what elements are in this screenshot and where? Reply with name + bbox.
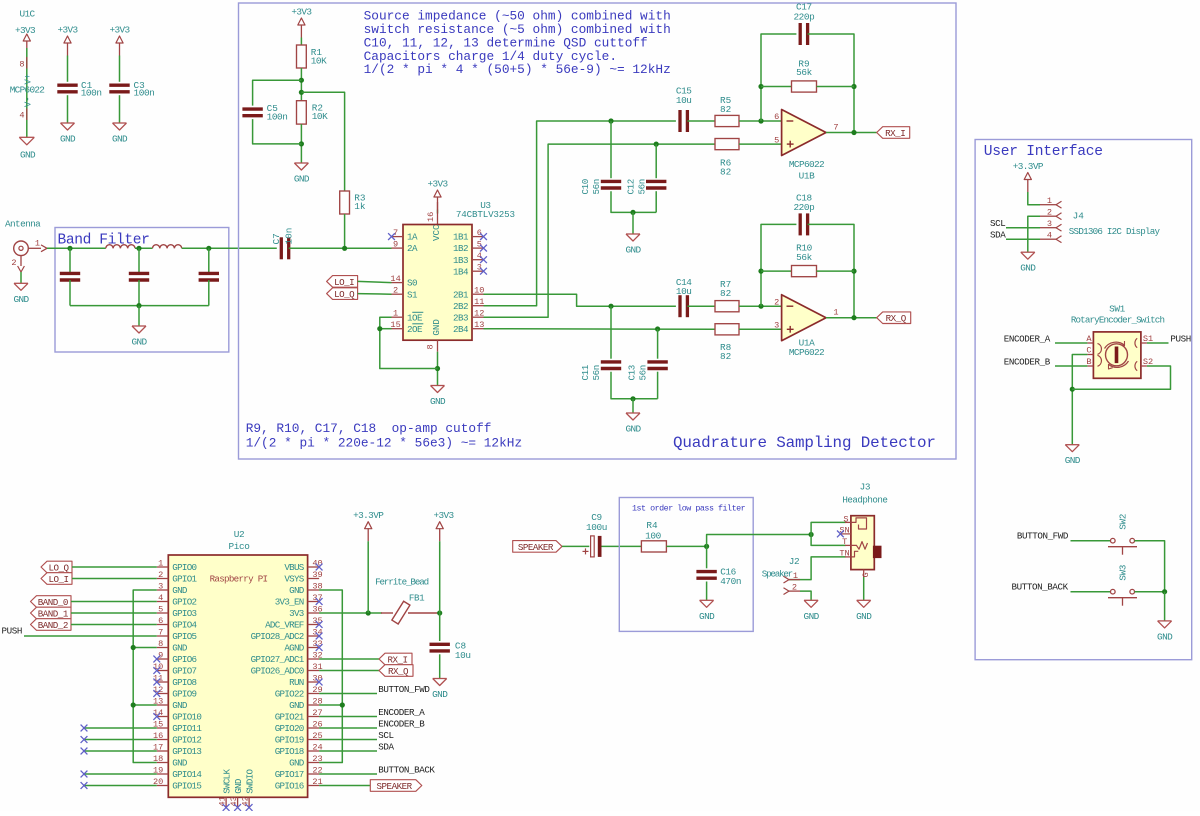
- svg-text:GPIO0: GPIO0: [172, 562, 196, 573]
- junction: [206, 246, 211, 251]
- svg-text:GND: GND: [172, 643, 188, 654]
- junction: [67, 246, 72, 251]
- antenna connector J1: [5, 218, 47, 272]
- J4 pin 3: [1040, 219, 1062, 231]
- wire: [439, 613, 441, 641]
- wire: [119, 95, 121, 123]
- svg-text:AGND: AGND: [284, 643, 304, 654]
- svg-text:S0: S0: [407, 278, 417, 289]
- svg-text:BAND_1: BAND_1: [38, 608, 69, 619]
- svg-text:GPIO18: GPIO18: [275, 746, 304, 757]
- ground (C1): [60, 123, 76, 145]
- U3 pin 11 2B2: [453, 297, 485, 312]
- svg-text:10u: 10u: [676, 95, 692, 106]
- U2 pin 23 GND: [289, 754, 323, 769]
- svg-text:2: 2: [158, 570, 163, 580]
- label PUSH (U2): [2, 626, 22, 637]
- svg-text:1B2: 1B2: [453, 243, 468, 254]
- svg-text:GPIO26_ADC0: GPIO26_ADC0: [251, 666, 304, 677]
- svg-text:LO_Q: LO_Q: [48, 562, 69, 573]
- svg-text:GPIO1: GPIO1: [172, 574, 197, 585]
- power +3.3VP (J4): [1013, 161, 1044, 192]
- U2 pin 37 3V3_EN: [275, 593, 323, 608]
- svg-text:5: 5: [158, 604, 163, 614]
- wire: [319, 693, 377, 695]
- wire: [367, 541, 369, 613]
- wire: [24, 635, 157, 637]
- svg-text:12: 12: [153, 685, 163, 695]
- wire: [71, 612, 157, 614]
- svg-text:V+: V+: [24, 74, 34, 85]
- svg-text:8: 8: [426, 344, 436, 349]
- svg-text:1: 1: [35, 239, 40, 249]
- svg-text:GPIO16: GPIO16: [275, 781, 304, 792]
- svg-text:100u: 100u: [586, 522, 607, 533]
- no-connect X U3 pin 7: [388, 233, 395, 240]
- svg-text:13: 13: [474, 320, 484, 330]
- resistor R1 10K: [297, 45, 307, 68]
- svg-text:ENCODER_A: ENCODER_A: [1004, 333, 1051, 344]
- svg-text:GND: GND: [856, 611, 872, 622]
- filter capacitor (right): [199, 273, 219, 280]
- svg-text:SPEAKER: SPEAKER: [377, 781, 413, 792]
- U3 pin 10 2B1: [453, 285, 485, 300]
- svg-text:U2: U2: [234, 529, 244, 540]
- capacitor C15 10u: [680, 110, 687, 132]
- svg-text:6: 6: [774, 112, 779, 122]
- svg-text:RotaryEncoder_Switch: RotaryEncoder_Switch: [1071, 315, 1165, 326]
- wire: [319, 670, 379, 672]
- wire: [602, 545, 642, 547]
- wire: [84, 773, 157, 775]
- svg-text:4: 4: [1047, 231, 1052, 241]
- note text bottom: [246, 421, 522, 450]
- svg-text:1/(2 * pi * 4 * (50+5) * 56e-9: 1/(2 * pi * 4 * (50+5) * 56e-9) ~= 12kHz: [364, 62, 671, 77]
- wire: [319, 750, 377, 752]
- global label RX_I (U2): [379, 653, 412, 665]
- svg-text:GND: GND: [699, 611, 715, 622]
- svg-text:10K: 10K: [312, 111, 328, 122]
- U2 pin 3 GND: [157, 581, 188, 596]
- no-connect X U2 pin 20 wire end: [81, 782, 88, 789]
- junction: [630, 210, 635, 215]
- svg-text:ENCODER_B: ENCODER_B: [378, 718, 425, 729]
- wire: [69, 248, 71, 273]
- svg-text:7: 7: [158, 627, 163, 637]
- U2 pin 4 GPIO2: [157, 593, 197, 608]
- wire: [300, 124, 302, 163]
- wire: [358, 293, 392, 296]
- label R3: [354, 192, 366, 212]
- svg-text:+3V3: +3V3: [427, 179, 448, 190]
- svg-text:3V3: 3V3: [289, 608, 304, 619]
- svg-text:56k: 56k: [796, 67, 812, 78]
- wire: [632, 212, 634, 234]
- svg-text:1B1: 1B1: [453, 232, 469, 243]
- ground (J4): [1020, 252, 1036, 274]
- U2 pin 9 GPIO6: [157, 650, 197, 665]
- svg-text:GPIO15: GPIO15: [172, 781, 201, 792]
- svg-text:Headphone: Headphone: [842, 495, 887, 506]
- label C12: [626, 179, 648, 194]
- svg-text:3: 3: [477, 262, 482, 272]
- svg-text:MCP6022: MCP6022: [789, 159, 824, 170]
- svg-text:R9, R10, C17, C18 op-amp cuto: R9, R10, C17, C18 op-amp cutoff: [246, 421, 492, 436]
- label C7: [271, 228, 295, 245]
- svg-text:GPIO13: GPIO13: [172, 746, 201, 757]
- wire: [138, 248, 140, 273]
- svg-text:GND: GND: [1020, 263, 1036, 274]
- wire: [119, 56, 121, 82]
- svg-text:2B2: 2B2: [453, 301, 468, 312]
- svg-text:MCP6022: MCP6022: [789, 347, 824, 358]
- svg-text:T: T: [842, 537, 847, 547]
- power +3V3 (FB1): [433, 510, 454, 541]
- headphone jack J3 body: [842, 482, 887, 570]
- capacitor C12 56n: [646, 181, 666, 188]
- svg-text:User Interface: User Interface: [984, 144, 1103, 160]
- svg-text:GPIO19: GPIO19: [275, 735, 304, 746]
- wire: [380, 328, 392, 330]
- SW1 pin A: [1086, 334, 1093, 344]
- inductor L2: [153, 245, 182, 249]
- U2 pin 43 GND: [229, 778, 244, 806]
- svg-text:15: 15: [390, 320, 400, 330]
- svg-text:82: 82: [720, 104, 731, 115]
- wire: [1006, 238, 1040, 240]
- wire: [439, 541, 441, 613]
- svg-text:C7: C7: [271, 233, 282, 244]
- svg-text:GPIO27_ADC1: GPIO27_ADC1: [251, 654, 305, 665]
- svg-text:GND: GND: [625, 245, 641, 256]
- svg-text:82: 82: [720, 351, 731, 362]
- svg-text:34: 34: [312, 627, 322, 637]
- ground (J2): [804, 600, 820, 622]
- svg-text:R4: R4: [646, 520, 658, 531]
- U2 pin 34 GPIO28_ADC2: [251, 627, 323, 642]
- wire: [437, 352, 439, 386]
- junction: [366, 610, 371, 615]
- svg-text:100n: 100n: [81, 88, 102, 99]
- svg-text:100n: 100n: [134, 88, 155, 99]
- U2 pin 35 ADC_VREF: [265, 616, 323, 631]
- wire: [484, 144, 716, 317]
- svg-text:BUTTON_FWD: BUTTON_FWD: [378, 684, 430, 695]
- svg-text:14: 14: [390, 274, 400, 284]
- J3 pin G: [861, 570, 871, 578]
- wire: [706, 546, 708, 568]
- U3 pin 6 1B1: [453, 228, 484, 243]
- U3 pin 14 S0: [390, 274, 417, 289]
- capacitor C11 56n: [601, 362, 621, 369]
- U2 pin 24 GPIO18: [275, 742, 323, 757]
- junction: [131, 645, 136, 650]
- wire: [1028, 216, 1040, 252]
- U2 pin 2 GPIO1: [157, 570, 198, 585]
- junction: [136, 303, 141, 308]
- svg-text:Raspberry PI: Raspberry PI: [210, 574, 268, 585]
- wire: [133, 704, 157, 706]
- wire: [739, 305, 782, 307]
- svg-text:5: 5: [774, 135, 779, 145]
- junction: [851, 84, 856, 89]
- U2 pin 26 GPIO20: [275, 719, 323, 734]
- inductor L1: [106, 245, 135, 249]
- wire: [657, 329, 659, 359]
- filter capacitor (middle): [129, 273, 149, 280]
- U2 pin 27 GPIO21: [275, 708, 323, 723]
- U2 pin 15 GPIO11: [153, 719, 202, 734]
- svg-text:SCL: SCL: [990, 218, 1005, 229]
- wire: [484, 294, 676, 306]
- U3 pin 7 1A: [392, 228, 419, 243]
- global label RX_Q (U2): [379, 665, 413, 677]
- U2 pin 40 VBUS: [284, 558, 322, 573]
- wire: [1135, 541, 1165, 592]
- power +3V3 (U3 VCC): [427, 179, 448, 210]
- svg-text:2A: 2A: [407, 243, 418, 254]
- wire: [632, 399, 634, 413]
- junction: [136, 246, 141, 251]
- J3 internals: [845, 518, 868, 557]
- U2 pin 18 GND: [153, 754, 188, 769]
- ground (U3): [430, 386, 446, 408]
- no-connect X U2 pin 14: [153, 713, 160, 720]
- svg-text:C12: C12: [626, 179, 637, 194]
- svg-text:6: 6: [477, 228, 482, 238]
- svg-text:SSD1306 I2C Display: SSD1306 I2C Display: [1069, 226, 1161, 237]
- no-connect X U2 pin 40: [316, 564, 323, 571]
- junction: [758, 84, 763, 89]
- svg-text:GPIO20: GPIO20: [275, 723, 304, 734]
- wire: [655, 191, 657, 212]
- wire: [71, 624, 157, 626]
- wire: [484, 121, 676, 306]
- svg-text:1: 1: [833, 308, 838, 318]
- capacitor C1 100n: [57, 85, 77, 92]
- svg-text:+3V3: +3V3: [433, 510, 454, 521]
- svg-text:TN: TN: [839, 549, 849, 559]
- junction: [131, 702, 136, 707]
- wire: [84, 785, 157, 787]
- wire: [817, 86, 855, 88]
- wire: [380, 317, 438, 368]
- global label LO_Q: [327, 288, 358, 300]
- U2 pin 29 GPIO22: [275, 685, 323, 700]
- svg-text:LO_I: LO_I: [334, 277, 354, 288]
- J3 pin S: [843, 515, 848, 525]
- ground (SW2 SW3): [1157, 621, 1173, 643]
- global label BAND_0: [31, 596, 72, 608]
- svg-text:11: 11: [153, 673, 163, 683]
- J2 pin 2: [784, 582, 801, 594]
- wire: [319, 658, 379, 660]
- wire: [739, 328, 782, 330]
- U2 pin 25 GPIO19: [275, 731, 323, 746]
- junction: [809, 532, 814, 537]
- svg-text:100n: 100n: [267, 111, 288, 122]
- wire: [208, 280, 210, 306]
- svg-text:10K: 10K: [311, 55, 327, 66]
- U2 pin 10 GPIO7: [153, 662, 197, 677]
- U2 pin 38 GND: [289, 581, 323, 596]
- wire: [611, 191, 656, 212]
- junction: [340, 702, 345, 707]
- svg-text:GPIO5: GPIO5: [172, 631, 196, 642]
- wire: [611, 372, 658, 399]
- op-amp U1B MCP6022: [774, 110, 838, 182]
- svg-text:GND: GND: [233, 778, 244, 794]
- label R5: [720, 95, 732, 115]
- svg-text:1OE: 1OE: [407, 312, 423, 323]
- label SDA (J4): [990, 230, 1006, 241]
- label R6: [720, 158, 732, 178]
- SW1 pin B: [1086, 357, 1093, 367]
- svg-text:220p: 220p: [793, 12, 814, 23]
- wire: [437, 210, 439, 214]
- svg-text:BUTTON_FWD: BUTTON_FWD: [1017, 530, 1069, 541]
- label C1: [81, 80, 102, 99]
- svg-text:RX_I: RX_I: [885, 128, 905, 139]
- label C8: [455, 640, 471, 661]
- no-connect X U2 pin 34: [316, 633, 323, 640]
- svg-text:GND: GND: [60, 134, 76, 145]
- capacitor C9 100u polarized: [583, 512, 607, 557]
- label BUTTON_BACK (SW3): [1012, 581, 1069, 592]
- rotary encoder SW1 internals: [1098, 338, 1138, 370]
- no-connect X J3 SN: [837, 531, 844, 538]
- wire: [133, 590, 157, 763]
- J3 pin TN: [839, 549, 849, 559]
- wire: [761, 86, 792, 88]
- J2 pin 1: [784, 571, 801, 583]
- svg-text:GPIO6: GPIO6: [172, 654, 196, 665]
- junction: [1162, 589, 1167, 594]
- svg-text:10: 10: [153, 662, 163, 672]
- U3 pin 9 2A: [392, 239, 419, 254]
- svg-text:GND: GND: [432, 689, 448, 700]
- U3 pin 2 S1: [392, 285, 419, 300]
- J3 pin SN: [839, 525, 851, 535]
- svg-text:1: 1: [1047, 196, 1052, 206]
- junction: [299, 78, 304, 83]
- no-connect X U2 pin 10: [153, 667, 160, 674]
- U2 pin 22 GPIO17: [275, 765, 323, 780]
- no-connect X U2 pin 35: [316, 621, 323, 628]
- svg-text:82: 82: [720, 288, 731, 299]
- svg-text:GND: GND: [289, 585, 305, 596]
- svg-text:+3.3VP: +3.3VP: [353, 510, 384, 521]
- svg-text:1st order low pass filter: 1st order low pass filter: [632, 504, 746, 514]
- wire: [138, 280, 140, 306]
- svg-text:LO_Q: LO_Q: [334, 289, 355, 300]
- svg-text:GPIO3: GPIO3: [172, 608, 196, 619]
- label ENCODER_A (U2): [378, 707, 425, 718]
- SW1 pin C: [1086, 346, 1093, 356]
- label C3: [134, 80, 155, 99]
- wire: [761, 270, 792, 272]
- wire: [826, 132, 877, 134]
- label SCL (U2): [378, 730, 393, 741]
- capacitor C18 220p: [800, 213, 807, 235]
- wire: [67, 56, 69, 82]
- ground (band filter): [131, 326, 147, 348]
- svg-text:BAND_2: BAND_2: [38, 620, 68, 631]
- svg-text:2: 2: [792, 582, 797, 592]
- svg-text:GND: GND: [294, 174, 310, 185]
- label BUTTON_FWD (U2): [378, 684, 430, 695]
- svg-text:+3V3: +3V3: [57, 25, 78, 36]
- svg-text:39: 39: [312, 570, 322, 580]
- svg-text:Pico: Pico: [229, 541, 251, 552]
- svg-text:56k: 56k: [796, 252, 812, 263]
- wire: [826, 317, 877, 319]
- speaker connector J2: [762, 556, 799, 580]
- svg-text:ENCODER_B: ENCODER_B: [1004, 356, 1051, 367]
- svg-text:4: 4: [158, 593, 163, 603]
- ground (C11 C13): [625, 413, 641, 435]
- svg-text:2B1: 2B1: [453, 289, 469, 300]
- ground (C10 C12): [625, 234, 641, 256]
- svg-text:10u: 10u: [455, 650, 471, 661]
- svg-text:SW3: SW3: [1118, 564, 1129, 580]
- global label BAND_1: [31, 607, 72, 619]
- svg-text:SCL: SCL: [378, 730, 393, 741]
- svg-text:56n: 56n: [591, 365, 602, 380]
- no-connect X U2 pin 11: [153, 679, 160, 686]
- multiplexer U3 74CBTLV3253 body: [403, 200, 515, 340]
- global label SPEAKER (U2): [370, 780, 422, 792]
- capacitor C7 10n: [281, 237, 288, 259]
- svg-text:8: 8: [158, 639, 163, 649]
- wire: [253, 119, 302, 144]
- svg-text:GPIO10: GPIO10: [172, 712, 201, 723]
- no-connect X U3 1B pin at y=260: [480, 256, 487, 263]
- wire: [319, 727, 377, 729]
- wire: [133, 647, 157, 649]
- wire: [344, 214, 346, 248]
- wire: [655, 144, 657, 178]
- Quadrature Sampling Detector group box: [239, 3, 957, 459]
- svg-text:SWDIO: SWDIO: [244, 769, 255, 794]
- svg-text:1: 1: [793, 571, 798, 581]
- svg-text:SW1: SW1: [1109, 303, 1125, 314]
- svg-text:GPIO11: GPIO11: [172, 723, 202, 734]
- svg-text:VCC: VCC: [431, 224, 442, 241]
- svg-text:82: 82: [720, 166, 731, 177]
- junction: [654, 142, 659, 147]
- label SCL (J4): [990, 218, 1005, 229]
- wire: [289, 247, 392, 249]
- no-connect X U2 pin 17 wire end: [81, 748, 88, 755]
- junction: [758, 304, 763, 309]
- label R4: [645, 520, 661, 541]
- svg-text:GPIO22: GPIO22: [275, 689, 304, 700]
- U2 pin 1 GPIO0: [157, 558, 197, 573]
- wire: [67, 95, 69, 123]
- label ENCODER_B (SW1): [1004, 356, 1051, 367]
- svg-text:BUTTON_BACK: BUTTON_BACK: [1012, 581, 1069, 592]
- junction: [630, 396, 635, 401]
- no-connect X U2 pin 41: [223, 804, 230, 811]
- svg-text:V-: V-: [24, 96, 34, 107]
- svg-text:SWCLK: SWCLK: [221, 769, 232, 794]
- op-amp U1A MCP6022: [774, 295, 838, 358]
- svg-text:GND: GND: [131, 337, 147, 348]
- svg-text:C11: C11: [580, 364, 591, 380]
- J3 pin T: [842, 537, 847, 547]
- wire: [69, 280, 71, 306]
